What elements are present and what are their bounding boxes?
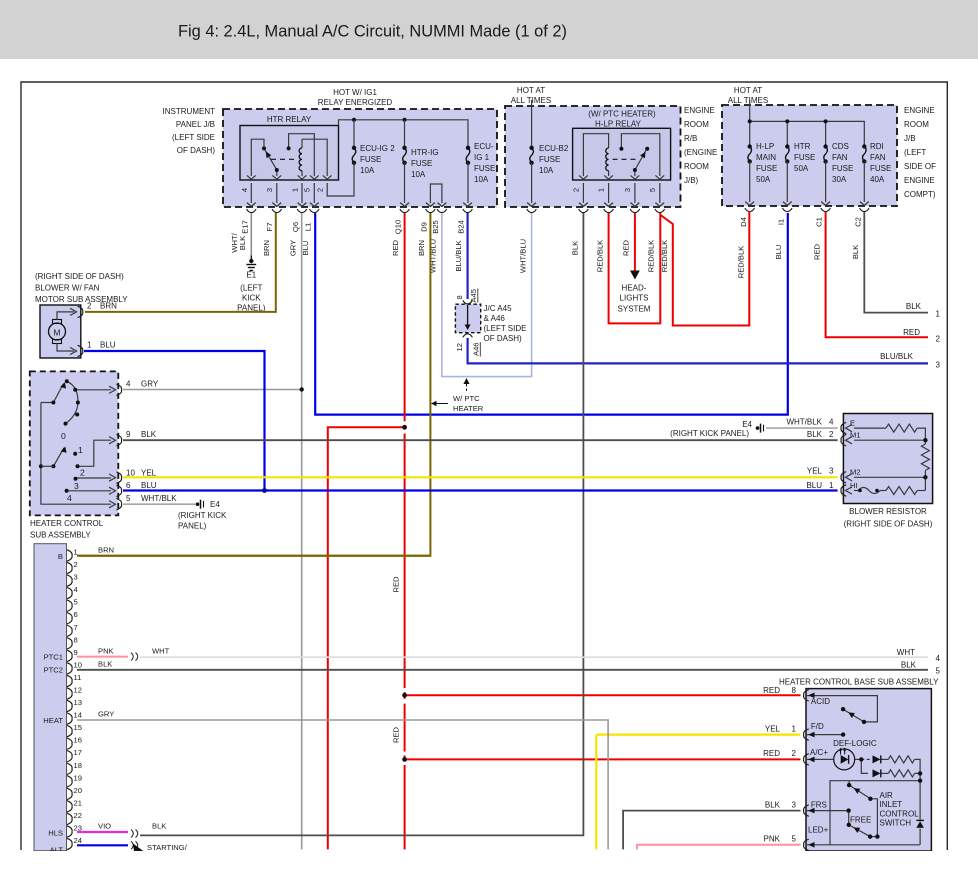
svg-text:D4: D4 <box>739 217 748 227</box>
svg-text:10A: 10A <box>411 170 426 179</box>
svg-text:A46: A46 <box>472 342 481 356</box>
svg-text:W/ PTC: W/ PTC <box>453 394 480 403</box>
svg-text:E: E <box>850 419 855 428</box>
svg-text:(LEFT SIDE: (LEFT SIDE <box>172 133 215 142</box>
svg-text:J/B): J/B) <box>684 176 699 185</box>
svg-text:PNK: PNK <box>764 835 781 844</box>
svg-text:F/D: F/D <box>811 722 824 731</box>
svg-text:GRY: GRY <box>141 380 159 389</box>
connector cups at J/B edges <box>247 208 870 213</box>
wire BLK C2 to node 1 <box>864 212 928 313</box>
wire E17 WHT/BLK to ground <box>250 213 252 256</box>
svg-text:AIR: AIR <box>880 791 894 800</box>
connector arrows at J/B edges <box>247 202 869 207</box>
svg-text:BLU/BLK: BLU/BLK <box>880 352 914 361</box>
svg-text:(W/ PTC HEATER): (W/ PTC HEATER) <box>588 110 656 119</box>
svg-text:1: 1 <box>936 310 941 319</box>
svg-text:16: 16 <box>74 736 82 745</box>
switch arm arrows (ACID/FRS/FREE) <box>848 712 855 718</box>
svg-text:F7: F7 <box>265 223 274 232</box>
svg-text:SIDE OF: SIDE OF <box>904 162 936 171</box>
svg-text:BLU: BLU <box>774 245 783 260</box>
wire B24 BLU/BLK through J/C A45 to node 3 <box>467 213 469 299</box>
fuses H-LP MAIN 50A / HTR 50A / CDS FAN 30A / RDI FAN 40A <box>748 147 866 162</box>
wire RED branch to heater base pin 2 <box>405 758 801 760</box>
wire RED C1 to node 2 <box>826 212 928 337</box>
svg-text:ENGINE: ENGINE <box>904 176 935 185</box>
svg-text:4: 4 <box>829 418 834 427</box>
heater control pin arrows and connectors (pins 4,9,10,6,5) <box>109 386 116 508</box>
svg-text:0: 0 <box>61 431 66 441</box>
svg-text:12: 12 <box>455 343 464 351</box>
svg-text:RELAY ENERGIZED: RELAY ENERGIZED <box>318 98 393 107</box>
svg-text:YEL: YEL <box>141 469 157 478</box>
svg-text:SUB ASSEMBLY: SUB ASSEMBLY <box>30 531 91 540</box>
svg-text:RED/BLK: RED/BLK <box>647 240 656 273</box>
svg-text:4: 4 <box>126 380 131 389</box>
svg-text:E1: E1 <box>246 271 256 280</box>
dashed link A/C+ <box>861 758 872 760</box>
svg-text:RED: RED <box>763 686 780 695</box>
wire RED/BLK H-LP relay pin 5 to D4 fuse <box>661 211 750 326</box>
svg-text:M2: M2 <box>850 468 861 477</box>
svg-text:J/C A45: J/C A45 <box>484 304 513 313</box>
svg-text:BLK: BLK <box>571 241 580 255</box>
svg-text:5: 5 <box>792 835 797 844</box>
wire: bus feed <box>749 100 751 147</box>
svg-text:ROOM: ROOM <box>684 162 709 171</box>
junction dot RED <box>402 425 407 430</box>
svg-text:ECU-: ECU- <box>474 142 494 151</box>
svg-text:M: M <box>53 328 60 338</box>
H-LP relay contact dots <box>619 147 623 151</box>
svg-text:HTR RELAY: HTR RELAY <box>267 115 312 124</box>
svg-text:BLK: BLK <box>906 302 922 311</box>
svg-text:E4: E4 <box>210 500 220 509</box>
svg-text:HEAD-: HEAD- <box>622 284 647 293</box>
svg-text:H-LP RELAY: H-LP RELAY <box>595 120 642 129</box>
wire GRY heater control pin 4 row <box>123 389 302 391</box>
svg-text:RED: RED <box>392 576 401 593</box>
svg-text:3: 3 <box>792 800 797 809</box>
svg-text:HLS: HLS <box>48 829 63 838</box>
svg-text:3: 3 <box>936 361 941 370</box>
svg-text:HOT AT: HOT AT <box>517 86 545 95</box>
svg-text:STARTING/: STARTING/ <box>147 843 188 852</box>
svg-text:ALL TIMES: ALL TIMES <box>728 96 768 105</box>
svg-text:C1: C1 <box>815 217 824 227</box>
blower motor M (BLOWER W/ FAN MOTOR SUB ASSEMBLY) <box>40 305 81 358</box>
wires: relay pins to J/B edge <box>251 183 314 203</box>
svg-text:FAN: FAN <box>870 153 886 162</box>
svg-text:FAN: FAN <box>832 153 848 162</box>
junction dot GRY <box>300 387 304 391</box>
svg-text:C2: C2 <box>853 217 862 227</box>
svg-text:FUSE: FUSE <box>474 164 495 173</box>
wire BLK heater control pin 9 to blower resistor M1 <box>123 439 838 441</box>
svg-text:E4: E4 <box>742 420 752 429</box>
svg-text:5: 5 <box>74 598 78 607</box>
connector pin ids E17 F7 Q6 L1 Q10 D9 B25 B24 D4 I1 C1 C2 <box>241 217 863 234</box>
svg-text:HEATER: HEATER <box>453 404 484 413</box>
H-LP relay coil <box>606 148 609 171</box>
svg-text:BLK: BLK <box>851 245 860 259</box>
svg-text:PTC1: PTC1 <box>44 653 63 662</box>
svg-text:J/B: J/B <box>904 134 916 143</box>
svg-text:SYSTEM: SYSTEM <box>618 305 651 314</box>
svg-text:2: 2 <box>572 188 581 192</box>
svg-text:1: 1 <box>87 341 92 350</box>
svg-text:20: 20 <box>74 786 82 795</box>
svg-text:HTR-IG: HTR-IG <box>411 148 439 157</box>
svg-text:21: 21 <box>74 798 82 807</box>
svg-text:FUSE: FUSE <box>539 155 560 164</box>
svg-text:HEATER CONTROL: HEATER CONTROL <box>30 519 104 528</box>
junction dots on bus <box>748 119 752 123</box>
svg-text:PNK: PNK <box>98 647 114 656</box>
svg-text:ENGINE: ENGINE <box>904 106 935 115</box>
wire BLU heater control pin 6 to blower resistor HI <box>123 489 838 491</box>
svg-text:WHT/BLU: WHT/BLU <box>519 239 528 273</box>
svg-text:BLK: BLK <box>807 430 823 439</box>
wire BRN strip pin 1 <box>77 555 430 557</box>
svg-text:R/B: R/B <box>684 134 697 143</box>
svg-text:1: 1 <box>291 188 300 192</box>
svg-text:ACID: ACID <box>811 697 830 706</box>
svg-text:B: B <box>58 552 63 561</box>
svg-text:WHT: WHT <box>152 647 170 656</box>
svg-text:8: 8 <box>74 635 78 644</box>
wire PNK heater base pin 5 (LED+) <box>637 845 801 850</box>
svg-text:YEL: YEL <box>765 724 781 733</box>
wire BLU L1 to I1 <box>315 213 788 415</box>
wire: D9-B25 jumper <box>430 184 442 203</box>
svg-text:I1: I1 <box>776 219 785 225</box>
svg-text:1: 1 <box>78 445 83 455</box>
svg-text:2: 2 <box>74 560 78 569</box>
wire YEL vertical to heater base pin 1 <box>595 735 597 850</box>
svg-text:17: 17 <box>74 748 82 757</box>
svg-text:INLET: INLET <box>880 800 903 809</box>
svg-text:13: 13 <box>74 698 82 707</box>
svg-text:4: 4 <box>74 585 78 594</box>
resistor: BLOWER RESISTOR (RIGHT SIDE OF DASH) <box>843 414 932 504</box>
svg-text:2: 2 <box>936 335 941 344</box>
svg-text:BLK: BLK <box>141 430 157 439</box>
fuse HTR-IG 10A <box>403 148 407 163</box>
junction block: ENGINE ROOM R/B (dashed box) <box>505 106 681 207</box>
svg-text:(LEFT SIDE: (LEFT SIDE <box>484 324 527 333</box>
junction dot <box>352 118 356 122</box>
LED indicator (DEF-LOGIC) <box>834 749 855 770</box>
heater base internal circuit <box>806 696 920 845</box>
svg-text:(RIGHT SIDE OF DASH): (RIGHT SIDE OF DASH) <box>844 520 933 529</box>
svg-text:RED: RED <box>391 239 400 256</box>
blower resistor elements <box>854 424 929 494</box>
svg-text:MOTOR SUB ASSEMBLY: MOTOR SUB ASSEMBLY <box>35 295 128 304</box>
wire YEL heater control pin 10 to blower resistor M2 <box>123 476 838 478</box>
wire WHT/BLU B25 to ECU-B2 fuse <box>442 213 532 377</box>
svg-text:RED/BLK: RED/BLK <box>596 240 605 273</box>
svg-text:BLOWER W/ FAN: BLOWER W/ FAN <box>35 284 100 293</box>
svg-text:PANEL): PANEL) <box>178 522 207 531</box>
svg-text:5: 5 <box>648 188 657 192</box>
svg-text:50A: 50A <box>794 164 809 173</box>
junction connector J/C A45 & A46 <box>455 304 480 333</box>
svg-text:10: 10 <box>126 469 135 478</box>
svg-text:A/C+: A/C+ <box>810 748 828 757</box>
wire BLK heater base pin 3 (FRS) <box>623 811 800 850</box>
svg-text:M1: M1 <box>850 431 861 440</box>
svg-text:FUSE: FUSE <box>411 159 432 168</box>
svg-text:8: 8 <box>792 686 797 695</box>
svg-text:Q10: Q10 <box>394 220 403 234</box>
arrows at HTR relay pins <box>247 175 332 179</box>
svg-text:MAIN: MAIN <box>756 153 776 162</box>
svg-text:5: 5 <box>303 188 312 192</box>
svg-text:2: 2 <box>316 188 325 192</box>
ground E1 (LEFT KICK PANEL) <box>246 256 256 271</box>
junction dot RED <box>402 757 407 762</box>
svg-text:GRY: GRY <box>289 240 298 256</box>
svg-text:FRS: FRS <box>811 801 827 810</box>
svg-text:4: 4 <box>240 188 249 192</box>
svg-text:E17: E17 <box>241 220 250 234</box>
svg-text:22: 22 <box>74 811 82 820</box>
svg-text:ROOM: ROOM <box>684 120 709 129</box>
svg-text:10A: 10A <box>360 166 375 175</box>
svg-text:RED: RED <box>622 239 631 256</box>
svg-text:18: 18 <box>74 761 82 770</box>
junction dot <box>403 118 407 122</box>
svg-text:50A: 50A <box>756 175 771 184</box>
svg-text:RED: RED <box>903 328 920 337</box>
title bar <box>0 0 978 59</box>
svg-text:RED: RED <box>392 726 401 743</box>
svg-text:VIO: VIO <box>98 822 111 831</box>
svg-text:12: 12 <box>74 686 82 695</box>
svg-text:B24: B24 <box>457 220 466 234</box>
label W/ PTC HEATER with arrows <box>466 381 468 391</box>
svg-text:(ENGINE: (ENGINE <box>684 148 717 157</box>
svg-text:5: 5 <box>126 494 131 503</box>
svg-text:5: 5 <box>936 667 941 676</box>
svg-text:BLK: BLK <box>98 660 112 669</box>
svg-text:WHT/BLK: WHT/BLK <box>141 494 177 503</box>
wire to ECU-B2 fuse <box>531 100 533 148</box>
wire BLK strip pin 10 (PTC2) to node 5 <box>77 669 928 671</box>
junction dots in resistor <box>923 438 927 442</box>
wire VIO/BLK strip pin 23 (HLS) <box>77 831 128 833</box>
wire BLU blower motor pin 1 to heater control pin 6 row <box>84 351 265 491</box>
svg-text:1: 1 <box>829 481 834 490</box>
wire Q6 GRY vertical <box>301 213 303 849</box>
svg-text:IG 1: IG 1 <box>474 153 490 162</box>
svg-text:LED+: LED+ <box>808 826 829 835</box>
wire BLK H-LP relay pin 2 to HLS pin 23 <box>140 213 583 835</box>
HTR relay coil <box>299 148 302 171</box>
relay H-LP RELAY (W/ PTC HEATER) <box>573 128 671 180</box>
svg-text:BLK: BLK <box>152 822 166 831</box>
svg-text:BLU: BLU <box>141 481 157 490</box>
svg-text:FUSE: FUSE <box>756 164 777 173</box>
svg-text:7: 7 <box>74 623 78 632</box>
wire PNK/WHT strip pin 9 (PTC1) to node 4 <box>77 656 128 658</box>
wire color labels <box>230 232 860 278</box>
svg-text:D9: D9 <box>420 222 429 232</box>
page clip <box>0 851 978 872</box>
svg-text:8: 8 <box>455 295 464 299</box>
svg-text:CONTROL: CONTROL <box>880 809 920 818</box>
svg-text:FREE: FREE <box>850 816 871 825</box>
HTR relay link (dashed) <box>271 158 298 160</box>
pin numbers 4 3 1 5 2 (HTR relay) <box>240 188 325 192</box>
H-LP relay switch arm arrow <box>640 152 645 159</box>
svg-text:(RIGHT KICK: (RIGHT KICK <box>178 511 227 520</box>
svg-text:(RIGHT SIDE OF DASH): (RIGHT SIDE OF DASH) <box>35 272 124 281</box>
wire RED H-LP relay pin 3 to headlights system <box>634 213 636 272</box>
svg-text:14: 14 <box>74 711 82 720</box>
svg-text:BLU/BLK: BLU/BLK <box>454 240 463 271</box>
svg-text:(LEFT: (LEFT <box>904 148 926 157</box>
svg-text:40A: 40A <box>870 175 885 184</box>
svg-text:& A46: & A46 <box>484 314 506 323</box>
svg-text:Fig 4: 2.4L, Manual A/C Circui: Fig 4: 2.4L, Manual A/C Circuit, NUMMI M… <box>178 23 567 41</box>
svg-text:OF DASH): OF DASH) <box>177 146 216 155</box>
svg-text:1: 1 <box>792 724 797 733</box>
svg-text:BLOWER RESISTOR: BLOWER RESISTOR <box>849 507 927 516</box>
svg-text:2: 2 <box>829 430 834 439</box>
wire F7 BRN to blower motor pin 2 <box>85 213 276 312</box>
svg-text:9: 9 <box>126 430 131 439</box>
svg-text:BLU: BLU <box>806 481 822 490</box>
contact dots <box>841 707 922 839</box>
svg-text:SWITCH: SWITCH <box>880 819 912 828</box>
fan switch internal contacts <box>41 381 111 504</box>
svg-text:3: 3 <box>829 467 834 476</box>
svg-text:RED/BLK: RED/BLK <box>737 246 746 279</box>
wire RED branch to heater base pin 8 <box>405 694 801 696</box>
svg-text:PTC2: PTC2 <box>44 666 63 675</box>
svg-text:YEL: YEL <box>807 467 823 476</box>
relay HTR internal wiring (pins 4,3,1,5,2) <box>251 134 327 176</box>
junction dot RED <box>402 693 407 698</box>
wire Q10 RED vertical <box>404 213 406 421</box>
fuse ECU-B2 10A <box>530 148 534 163</box>
svg-text:L1: L1 <box>304 223 313 231</box>
connector strip B/PTC1/PTC2/HEAT/HLS/ALT (24 pins) <box>34 544 67 851</box>
switch: HEATER CONTROL SUB ASSEMBLY (fan switch, dashed box) <box>30 371 119 515</box>
H-LP relay link (dashed) <box>613 158 639 160</box>
svg-text:COMPT): COMPT) <box>904 190 936 199</box>
svg-text:OF DASH): OF DASH) <box>484 334 523 343</box>
wire RED/BLK H-LP relay pin 1 to pin 5 <box>609 213 661 323</box>
junction block: instrument panel J/B (dashed box) <box>223 109 497 207</box>
svg-text:ENGINE: ENGINE <box>684 106 715 115</box>
svg-text:24: 24 <box>74 836 82 845</box>
svg-text:DEF-LOGIC: DEF-LOGIC <box>833 739 877 748</box>
svg-text:6: 6 <box>126 481 131 490</box>
svg-text:ECU-IG 2: ECU-IG 2 <box>360 144 395 153</box>
HTR relay switch arm arrow <box>266 151 272 158</box>
svg-text:CDS: CDS <box>832 142 849 151</box>
heater base pin arrows <box>808 693 814 848</box>
diodes D1 D2 and zener <box>873 755 881 763</box>
svg-text:BRN: BRN <box>98 546 114 555</box>
svg-text:H-LP: H-LP <box>756 142 774 151</box>
svg-text:15: 15 <box>74 723 82 732</box>
svg-text:HI: HI <box>850 481 858 490</box>
ACID switch path <box>806 696 877 722</box>
svg-text:GRY: GRY <box>98 710 114 719</box>
svg-text:3: 3 <box>74 481 79 491</box>
svg-text:1: 1 <box>597 188 606 192</box>
svg-text:9: 9 <box>74 648 78 657</box>
svg-text:FUSE: FUSE <box>794 153 815 162</box>
svg-text:A45: A45 <box>469 289 478 303</box>
svg-text:FUSE: FUSE <box>832 164 853 173</box>
svg-text:BRN: BRN <box>417 240 426 256</box>
svg-text:10A: 10A <box>539 166 554 175</box>
svg-text:ROOM: ROOM <box>904 120 929 129</box>
svg-text:RED/BLK: RED/BLK <box>660 240 669 273</box>
arrows at H-LP relay pins <box>579 175 664 179</box>
svg-text:WHT/BLK: WHT/BLK <box>786 418 822 427</box>
svg-text:INSTRUMENT: INSTRUMENT <box>163 107 216 116</box>
wire BLU strip pin 24 (ALT) to STARTING/CHARGING <box>77 844 128 846</box>
svg-text:4: 4 <box>936 654 941 663</box>
svg-text:ECU-B2: ECU-B2 <box>539 144 569 153</box>
svg-text:10A: 10A <box>474 175 489 184</box>
svg-text:2: 2 <box>80 468 85 478</box>
relay HTR RELAY <box>240 126 339 181</box>
svg-text:(LEFT: (LEFT <box>240 284 262 293</box>
wire WHT/BLK heater control pin 5 to E4 <box>123 503 196 505</box>
svg-text:LIGHTS: LIGHTS <box>620 294 649 303</box>
junction block: ENGINE ROOM J/B (dashed box) <box>722 105 897 206</box>
connector E4 (RIGHT KICK PANEL) <box>196 502 200 506</box>
svg-text:19: 19 <box>74 773 82 782</box>
svg-text:RDI: RDI <box>870 142 884 151</box>
fuse ECU-IG 1 10A <box>466 148 470 163</box>
svg-text:(RIGHT KICK PANEL): (RIGHT KICK PANEL) <box>670 429 749 438</box>
svg-text:HOT AT: HOT AT <box>734 86 762 95</box>
svg-text:FUSE: FUSE <box>870 164 891 173</box>
svg-text:FUSE: FUSE <box>360 155 381 164</box>
svg-text:3: 3 <box>623 188 632 192</box>
svg-text:BLK: BLK <box>765 800 781 809</box>
wire D9 BRN to connector B pin 1 <box>77 213 430 556</box>
svg-text:RED: RED <box>813 243 822 260</box>
svg-text:4: 4 <box>67 493 72 503</box>
svg-text:BLU: BLU <box>100 341 116 350</box>
wire: J/B internal bus <box>339 120 469 148</box>
svg-text:2: 2 <box>792 749 797 758</box>
svg-text:3: 3 <box>74 573 78 582</box>
svg-text:BLK: BLK <box>238 236 247 250</box>
svg-text:30A: 30A <box>832 175 847 184</box>
svg-text:11: 11 <box>74 673 82 682</box>
svg-text:Q6: Q6 <box>291 222 300 232</box>
wire GRY strip pin 14 (HEAT) <box>77 720 608 849</box>
svg-text:BLK: BLK <box>901 661 917 670</box>
svg-text:HOT W/ IG1: HOT W/ IG1 <box>333 88 377 97</box>
HTR relay contact dots <box>262 146 266 150</box>
fuse ECU-IG 2 10A <box>352 148 356 163</box>
strip pin connectors 1-24 <box>67 548 82 850</box>
junction dot BLU <box>262 488 267 493</box>
svg-text:PANEL J/B: PANEL J/B <box>176 120 215 129</box>
